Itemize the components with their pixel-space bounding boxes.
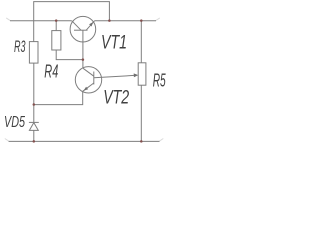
emitter arrow VT1 — [89, 22, 93, 27]
cathode bar — [29, 121, 39, 123]
svg-text:R5: R5 — [153, 71, 167, 91]
node junction top-right — [108, 19, 111, 22]
wire right end tick — [156, 18, 160, 21]
svg-text:VT1: VT1 — [101, 32, 127, 53]
node junction VD5-bottom — [33, 140, 36, 143]
wire bottom rail — [5, 139, 164, 142]
wire main horizontal left — [10, 20, 72, 22]
node junction R5-top — [140, 19, 143, 22]
wire main horizontal right — [95, 20, 157, 22]
wire left end tick — [6, 18, 10, 21]
wiper arrowhead R5 — [134, 73, 139, 77]
base bar — [74, 29, 88, 31]
svg-text:VD5: VD5 — [4, 114, 25, 131]
node junction VD5-top — [33, 103, 36, 106]
node junction R4-VT1 base — [82, 58, 85, 61]
zener diode VD5 — [29, 105, 39, 142]
svg-text:R3: R3 — [14, 37, 26, 56]
collector diagonal — [72, 21, 81, 30]
transistor VT2 — [34, 67, 136, 105]
resistor R3 — [29, 42, 38, 105]
emitter lead down and left wire — [34, 91, 83, 104]
potentiometer R5 — [138, 21, 146, 142]
node junction R4-top — [55, 19, 58, 22]
emitter arrow VT2 — [84, 87, 89, 91]
node junction R5-bottom — [140, 140, 143, 143]
svg-text:R4: R4 — [44, 62, 58, 82]
base lead down — [82, 30, 84, 68]
emitter diagonal — [86, 21, 94, 30]
anode triangle — [29, 123, 38, 131]
emitter diagonal — [83, 83, 94, 91]
svg-text:VT2: VT2 — [103, 87, 129, 108]
base bar vertical — [93, 72, 95, 85]
resistor R4 — [52, 21, 83, 60]
transistor VT1 — [70, 16, 96, 68]
collector diagonal — [83, 68, 94, 76]
base wire to R5 wiper — [94, 75, 136, 78]
wire top bypass — [34, 2, 110, 42]
